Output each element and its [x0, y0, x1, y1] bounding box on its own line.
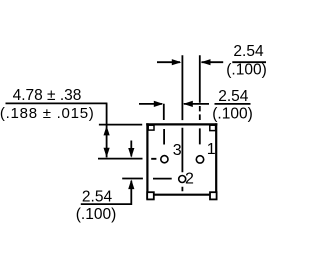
svg-text:(.100): (.100)	[226, 62, 267, 79]
svg-text:2.54: 2.54	[233, 43, 264, 60]
svg-text:(.100): (.100)	[212, 106, 253, 123]
center line pin 3 vertical	[163, 104, 165, 145]
center line pin 1 vertical	[199, 55, 201, 144]
dimension mid 2.54 right arrow	[183, 101, 209, 107]
standoff foot bottom-right	[210, 192, 217, 199]
dimension mid 2.54 left arrow	[139, 101, 163, 107]
pin 1 circle	[196, 156, 203, 163]
svg-text:2: 2	[185, 171, 194, 188]
svg-text:(.100): (.100)	[76, 206, 117, 223]
corner notch top-right	[210, 125, 216, 130]
pin 3 circle	[161, 156, 168, 163]
dimension left 4.78 double arrow	[104, 103, 110, 157]
dimension top 2.54 text	[226, 43, 267, 79]
svg-text:4.78 ± .38: 4.78 ± .38	[13, 87, 82, 104]
dimension left 2.54 upper arrow	[128, 141, 134, 158]
center line pin 2 row horizontal	[122, 178, 172, 180]
svg-text:(.188 ± .015): (.188 ± .015)	[0, 105, 95, 122]
svg-text:2.54: 2.54	[218, 88, 249, 105]
svg-text:3: 3	[173, 142, 182, 159]
body left edge	[146, 123, 148, 199]
body bottom edge	[147, 194, 216, 196]
standoff foot bottom-left	[147, 192, 154, 199]
dimension top 2.54 left arrow	[157, 59, 181, 65]
dimension top 2.54 right arrow	[201, 59, 223, 65]
svg-text:1: 1	[207, 141, 216, 158]
dimension mid 2.54 text	[212, 88, 253, 123]
dimension left 4.78 text with underline leader	[0, 87, 107, 122]
dimension left 2.54 text	[76, 189, 117, 224]
body right edge	[215, 123, 217, 199]
pin 2 circle	[179, 176, 186, 183]
center line pin 2 vertical	[181, 55, 183, 191]
dimension left 2.54 lower arrow with leader	[81, 180, 135, 205]
body top edge	[146, 123, 217, 125]
center line pins 1-3 row horizontal	[98, 158, 156, 160]
svg-text:2.54: 2.54	[82, 189, 113, 206]
corner notch top-left	[148, 125, 154, 130]
extension line body top left	[99, 124, 142, 126]
